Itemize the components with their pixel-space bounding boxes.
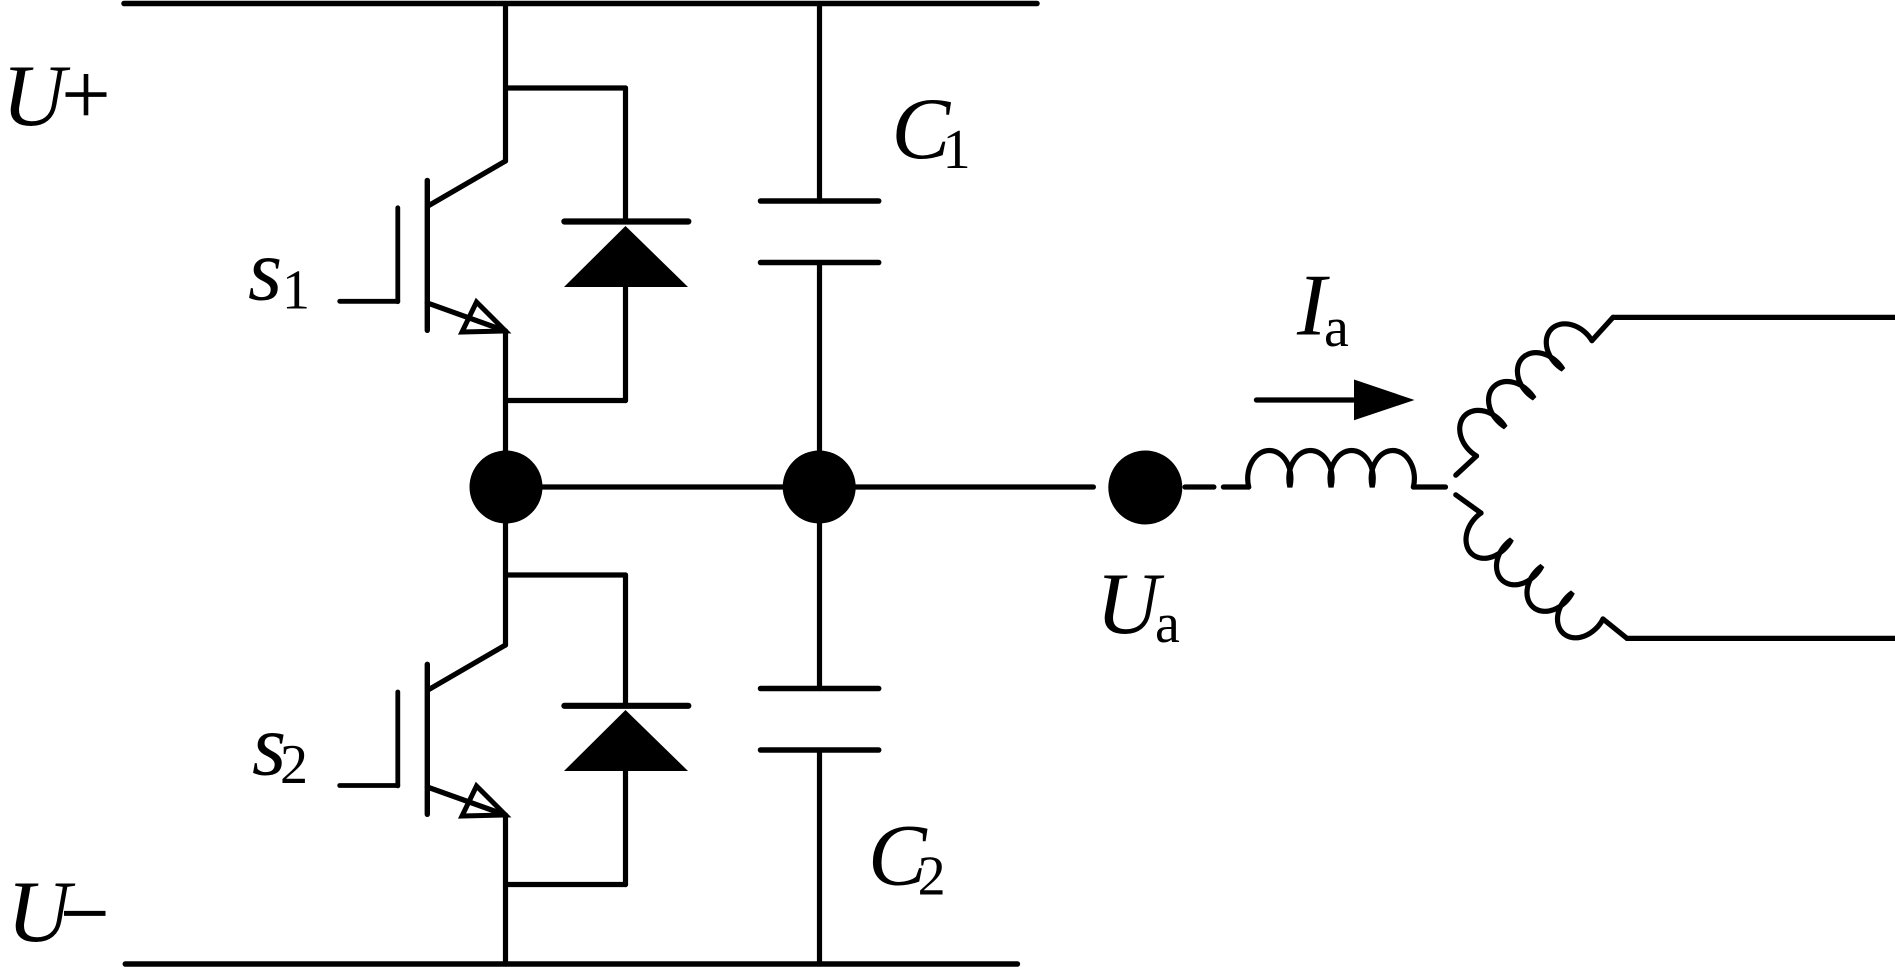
current arrow Ia [1256, 380, 1414, 421]
wire: D1 anode branch to emitter [506, 398, 626, 403]
winding W2 (lower motor phase coil) [1466, 513, 1603, 638]
wire: W1 to upper terminal corner [1592, 317, 1613, 340]
wire: S1 emitter down to node A [503, 331, 508, 487]
svg-text:1: 1 [282, 260, 310, 322]
label C1 [892, 81, 971, 181]
wire: top rail to C1 [817, 4, 822, 202]
node Ua (phase terminal) [1108, 451, 1182, 525]
wire: star point lower lead [1456, 495, 1481, 513]
label U- [7, 864, 106, 961]
diode D1 [564, 88, 688, 401]
label Ua [1096, 556, 1180, 655]
svg-text:U: U [2, 48, 71, 145]
transistor S1 (IGBT) [340, 161, 506, 332]
label C2 [868, 808, 946, 908]
capacitor C1 [761, 201, 879, 263]
label S1 [248, 223, 310, 322]
wire: node A down to S2 collector [503, 487, 508, 645]
wire: inductor to motor star point [1413, 484, 1445, 489]
svg-text:a: a [1324, 297, 1349, 359]
svg-text:1: 1 [943, 119, 971, 181]
wire: collector branch to diode D1 cathode [506, 85, 626, 90]
wire: collector branch to diode D2 cathode [506, 572, 626, 577]
label U+ [2, 48, 107, 145]
wire: bottom DC rail (U-) [125, 961, 1017, 967]
capacitor C2 [761, 689, 879, 751]
diode D2 [564, 575, 688, 885]
wire: node B to C2 [817, 487, 822, 689]
inductor La (phase inductance) [1248, 451, 1415, 487]
winding W1 (upper motor phase coil) [1460, 324, 1592, 456]
wire: C2 to bottom rail [817, 750, 822, 964]
svg-text:2: 2 [280, 734, 308, 796]
wire: C1 to node B [817, 263, 822, 488]
transistor S2 (IGBT) [340, 645, 506, 816]
wire: D2 anode branch to emitter [506, 882, 626, 887]
wire: star point upper lead [1456, 456, 1477, 475]
wire: top rail to S1 collector [503, 4, 508, 162]
label Ia [1296, 258, 1349, 360]
junction node A (S1/S2 midpoint) [470, 451, 543, 524]
svg-text:2: 2 [918, 846, 946, 908]
wire: S2 emitter down to bottom rail [503, 815, 508, 964]
svg-text:a: a [1155, 593, 1180, 655]
wire: phase output node A to node B to Ua [506, 484, 1094, 489]
svg-text:s: s [248, 223, 282, 320]
wire: upper motor terminal [1613, 315, 1895, 320]
junction node B (C1/C2 midpoint) [783, 451, 856, 524]
wire: W2 to lower terminal corner [1603, 619, 1627, 638]
label S2 [252, 698, 308, 797]
wire: Ua to inductor La [1185, 484, 1249, 489]
wire: lower motor terminal [1627, 636, 1895, 641]
wire: top DC rail (U+) [124, 1, 1037, 7]
